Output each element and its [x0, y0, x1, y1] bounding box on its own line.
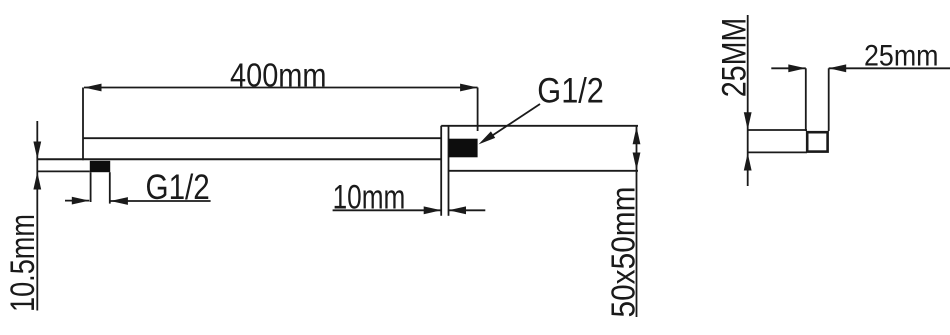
wire: flange top / 50x50mm top extension line [441, 125, 638, 127]
wire: left G1/2 dimension lines [65, 200, 89, 202]
arrowhead up at plate bottom (25MM) [744, 153, 752, 171]
right end flange: right edge / 10mm extension [448, 126, 450, 216]
wire: 25mm dimension lines (horizontal) [771, 67, 806, 69]
arrowhead left at tube right (25mm) [829, 64, 847, 72]
arrowhead right of 400mm dim [460, 84, 478, 92]
end view flange plate bottom [748, 151, 807, 153]
end view tube left side [805, 68, 807, 131]
wire: flange bottom / 50x50mm bottom extension line [449, 170, 639, 172]
wire: 10mm dimension lines [333, 209, 442, 211]
outlet thread G1/2 black square (right) [449, 139, 478, 158]
svg-text:G1/2: G1/2 [146, 168, 210, 207]
wire: left thread extension lines [90, 172, 92, 202]
arrowhead right at tube left (25mm) [788, 64, 806, 72]
svg-text:25mm: 25mm [864, 40, 939, 73]
svg-text:G1/2: G1/2 [537, 71, 604, 110]
wire: arm left edge / extension line [82, 88, 84, 161]
arrowhead left at flange right [449, 206, 467, 214]
25MM dimension line (vertical) [747, 15, 749, 186]
end view flange plate top [748, 129, 807, 131]
svg-text:400mm: 400mm [230, 57, 327, 94]
arrowhead up at flange top [633, 127, 641, 145]
wire: 400mm dimension line [84, 87, 478, 89]
50x50mm dimension line (vertical, right) [636, 126, 638, 317]
arrowhead left toward thread [110, 197, 128, 205]
arrowhead left of 400mm dim [84, 84, 102, 92]
shower arm tube: bottom edge / wall plate top [37, 158, 441, 160]
svg-text:25MM: 25MM [716, 18, 754, 98]
arrowhead down at flange bottom [633, 153, 641, 171]
svg-text:10mm: 10mm [333, 179, 406, 217]
10.5mm dimension line (vertical, left) [36, 121, 38, 311]
wall thread G1/2 black square (left) [90, 161, 110, 172]
arrowhead up at plate bottom [33, 172, 41, 190]
arrowhead right toward thread [72, 197, 90, 205]
wire: 400mm right extension line [477, 88, 479, 132]
svg-text:50x50mm: 50x50mm [605, 187, 642, 318]
arrowhead down at plate top [33, 142, 41, 160]
end view tube cross-section square [807, 132, 827, 151]
shower arm tube: top edge [83, 137, 441, 139]
right end flange: left edge / 10mm extension [440, 126, 442, 216]
wire: G1/2 leader line (right) [484, 104, 540, 141]
arrowhead right at flange left [424, 206, 442, 214]
end view tube right side [828, 68, 830, 131]
svg-text:10.5mm: 10.5mm [4, 214, 42, 312]
leader arrowhead at right thread [479, 131, 496, 144]
arrowhead down at plate top (25MM) [744, 112, 752, 130]
wall plate bottom edge [37, 170, 90, 172]
